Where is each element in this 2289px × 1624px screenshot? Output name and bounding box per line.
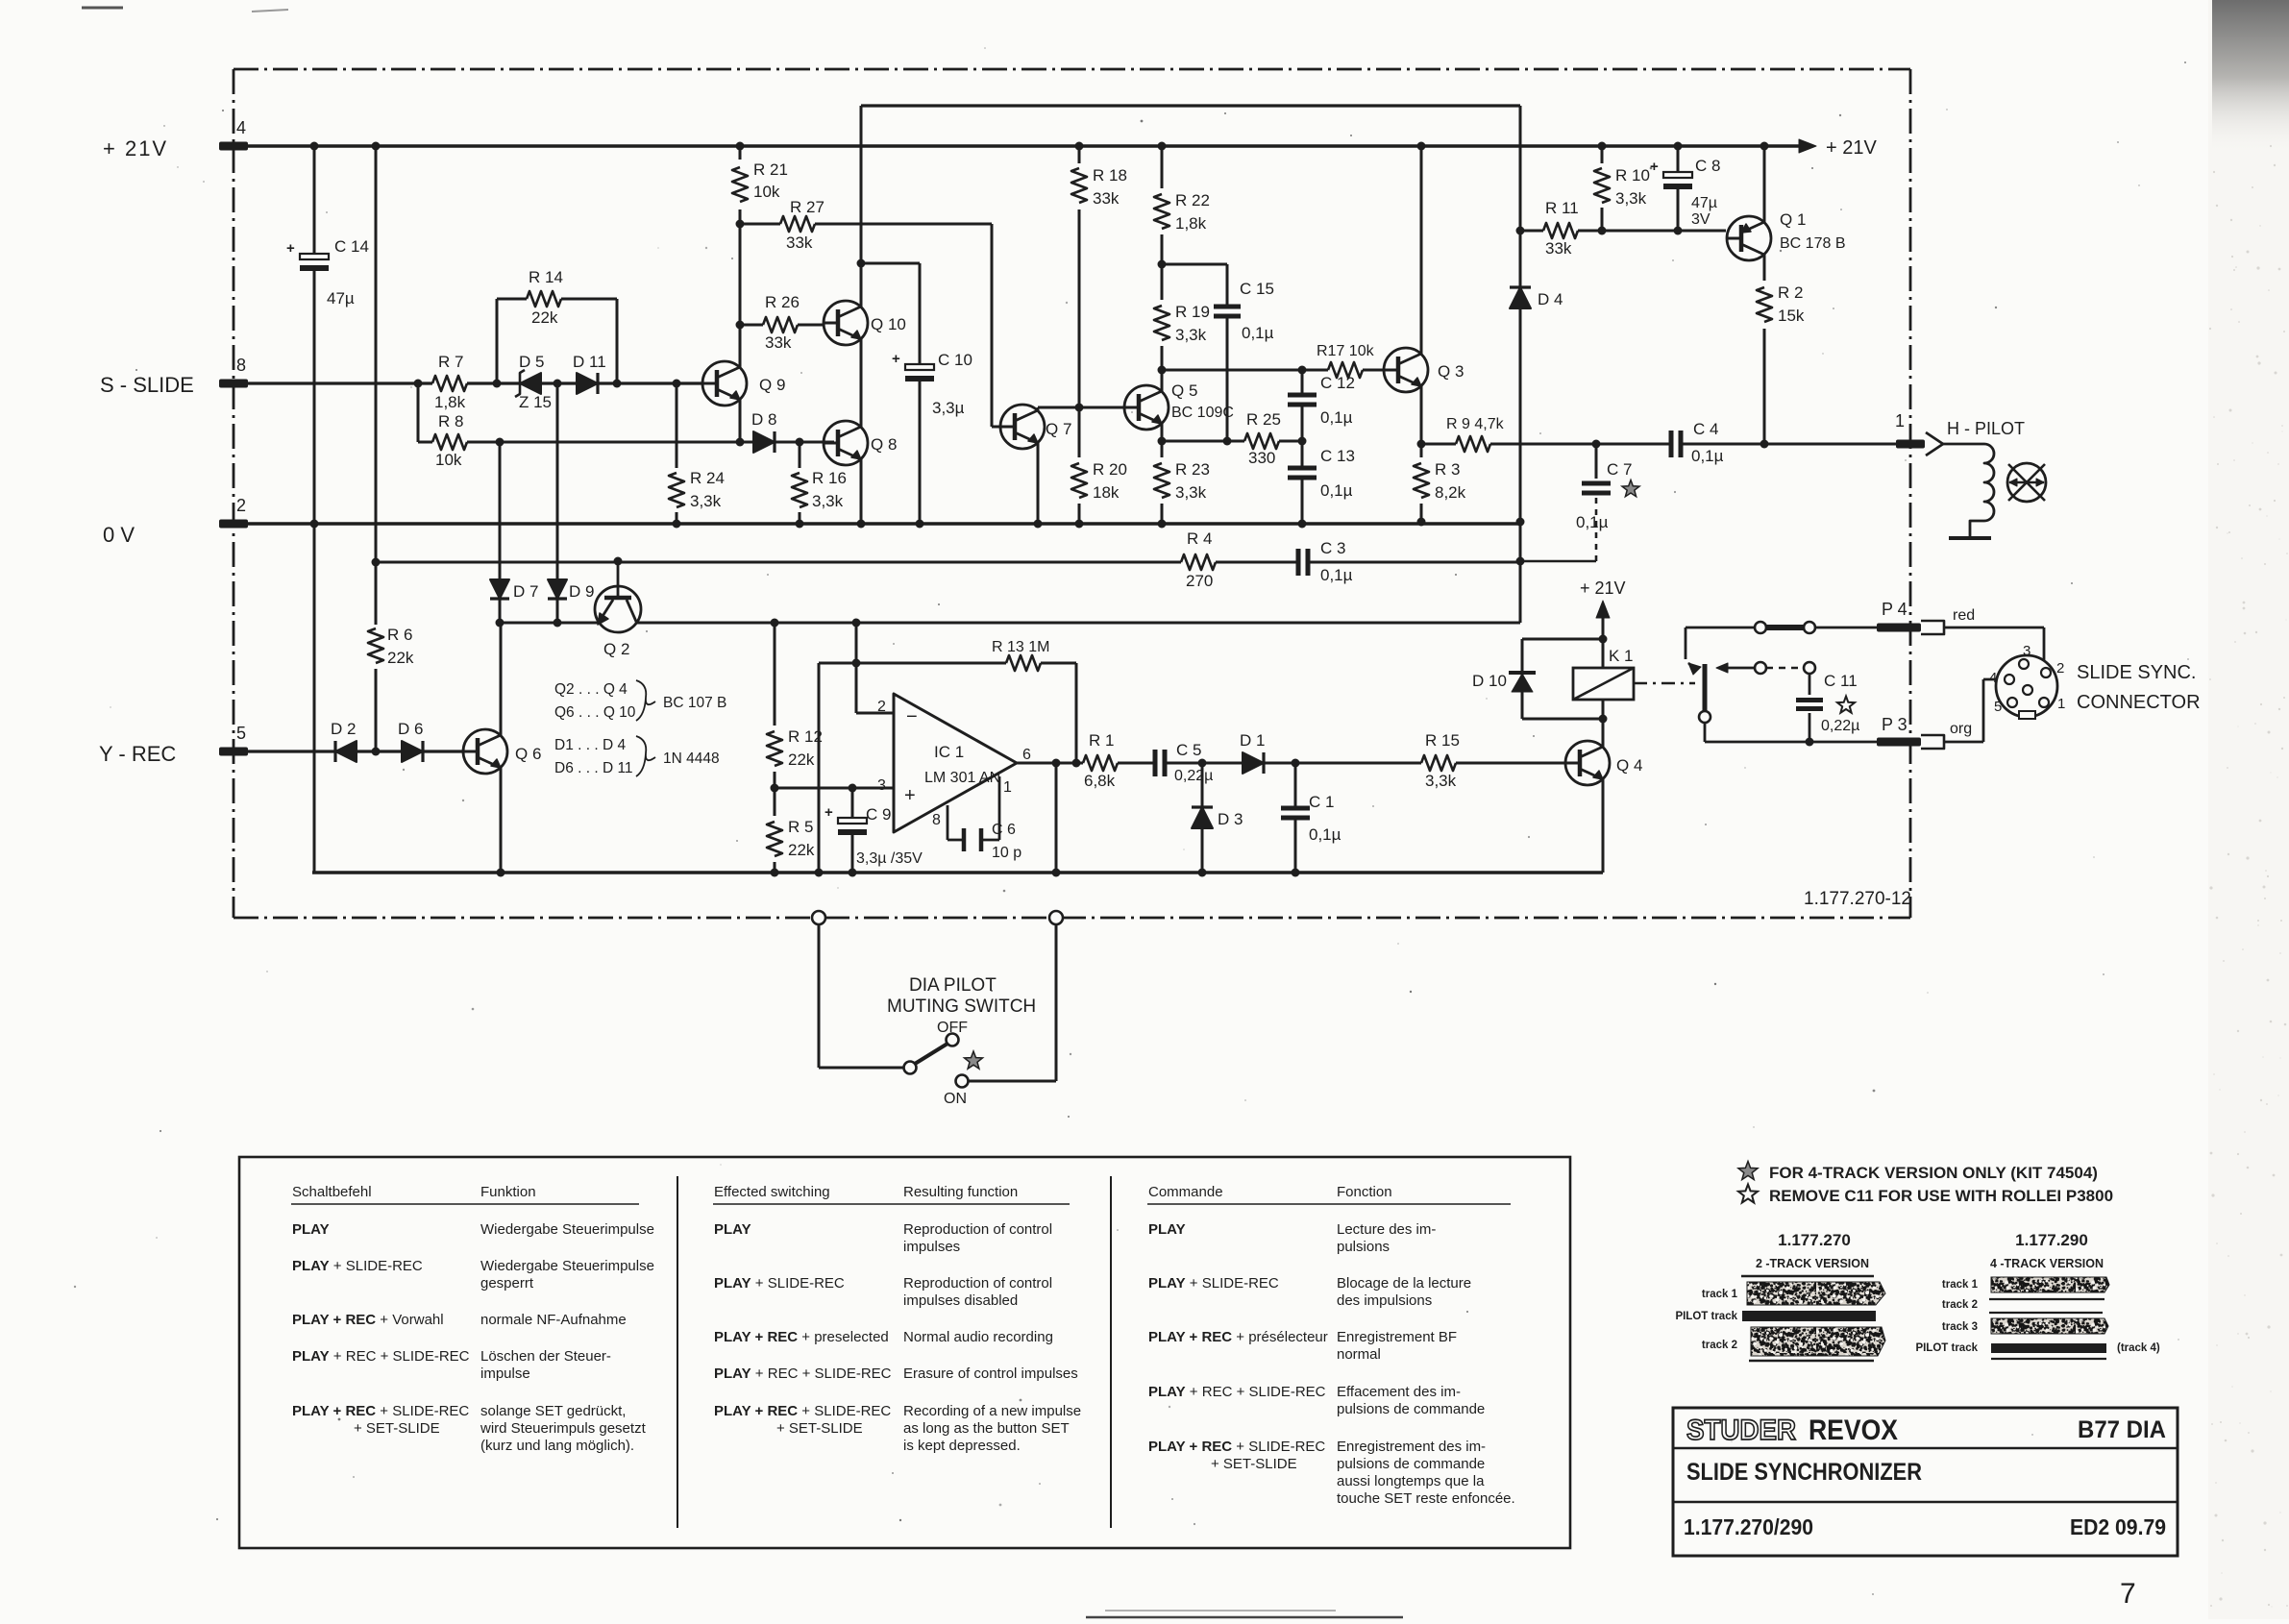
svg-text:+ SET-SLIDE: + SET-SLIDE <box>1211 1456 1297 1472</box>
svg-text:R 8: R 8 <box>438 412 463 431</box>
svg-text:R 3: R 3 <box>1435 460 1460 479</box>
svg-text:0,1µ: 0,1µ <box>1691 447 1724 465</box>
svg-text:wird Steuerimpuls gesetzt: wird Steuerimpuls gesetzt <box>480 1420 647 1437</box>
svg-text:red: red <box>1953 607 1975 624</box>
svg-text:Recording of a new impulse: Recording of a new impulse <box>903 1403 1081 1419</box>
svg-text:Enregistrement BF: Enregistrement BF <box>1337 1329 1457 1345</box>
svg-text:R 11: R 11 <box>1545 199 1579 217</box>
svg-text:0 V: 0 V <box>103 523 135 547</box>
svg-text:P 3: P 3 <box>1882 715 1907 734</box>
svg-text:C 10: C 10 <box>938 351 972 369</box>
svg-text:impulses disabled: impulses disabled <box>903 1292 1018 1309</box>
svg-text:3,3k: 3,3k <box>1175 326 1207 344</box>
svg-text:track 3: track 3 <box>1942 1321 1978 1333</box>
svg-text:MUTING SWITCH: MUTING SWITCH <box>887 997 1036 1017</box>
svg-text:2 -TRACK VERSION: 2 -TRACK VERSION <box>1756 1257 1869 1270</box>
svg-text:33k: 33k <box>786 234 813 252</box>
svg-text:10k: 10k <box>753 183 780 201</box>
svg-text:as long as the button SET: as long as the button SET <box>903 1420 1070 1437</box>
svg-text:D1 . . . D 4: D1 . . . D 4 <box>554 737 626 753</box>
svg-text:OFF: OFF <box>937 1020 968 1036</box>
svg-text:+: + <box>1650 159 1659 175</box>
svg-text:des impulsions: des impulsions <box>1337 1292 1432 1309</box>
svg-text:R 22: R 22 <box>1175 191 1210 209</box>
svg-text:Effected switching: Effected switching <box>714 1184 830 1200</box>
svg-text:C 8: C 8 <box>1695 157 1720 175</box>
svg-text:+ 21V: + 21V <box>103 136 168 160</box>
svg-text:C 7: C 7 <box>1607 460 1632 479</box>
svg-text:Q 3: Q 3 <box>1438 362 1464 381</box>
svg-text:0,1µ: 0,1µ <box>1320 481 1353 500</box>
svg-text:1,8k: 1,8k <box>1175 214 1207 233</box>
svg-text:R 5: R 5 <box>788 818 813 836</box>
svg-text:R 21: R 21 <box>753 160 788 179</box>
svg-text:15k: 15k <box>1778 307 1805 325</box>
svg-text:D 8: D 8 <box>751 410 776 429</box>
svg-text:PLAY: PLAY <box>292 1221 330 1238</box>
svg-text:D 11: D 11 <box>573 353 606 371</box>
svg-text:4 -TRACK VERSION: 4 -TRACK VERSION <box>1990 1257 2104 1270</box>
svg-text:3: 3 <box>877 777 886 794</box>
svg-text:PLAY + SLIDE-REC: PLAY + SLIDE-REC <box>714 1275 845 1292</box>
svg-text:impulses: impulses <box>903 1239 960 1255</box>
svg-text:Q 1: Q 1 <box>1780 210 1806 229</box>
svg-text:4: 4 <box>236 118 246 137</box>
svg-text:1,8k: 1,8k <box>434 393 466 411</box>
svg-text:C 14: C 14 <box>334 237 369 256</box>
svg-text:10k: 10k <box>435 451 462 469</box>
svg-text:PLAY + REC + SLIDE-REC: PLAY + REC + SLIDE-REC <box>1148 1384 1326 1400</box>
svg-text:Reproduction of control: Reproduction of control <box>903 1221 1052 1238</box>
svg-text:PLAY + REC + SLIDE-REC: PLAY + REC + SLIDE-REC <box>1148 1439 1325 1455</box>
svg-text:6: 6 <box>1022 747 1031 763</box>
svg-text:PLAY + REC + Vorwahl: PLAY + REC + Vorwahl <box>292 1312 444 1328</box>
svg-text:PLAY + REC + SLIDE-REC: PLAY + REC + SLIDE-REC <box>292 1348 470 1365</box>
svg-text:R 15: R 15 <box>1425 731 1460 750</box>
svg-text:SLIDE SYNC.: SLIDE SYNC. <box>2077 662 2196 683</box>
svg-text:PLAY + SLIDE-REC: PLAY + SLIDE-REC <box>1148 1275 1279 1292</box>
svg-text:2: 2 <box>877 699 886 715</box>
svg-text:R 27: R 27 <box>790 198 825 216</box>
svg-text:1.177.290: 1.177.290 <box>2015 1231 2088 1249</box>
svg-text:impulse: impulse <box>480 1366 530 1382</box>
svg-text:P 4: P 4 <box>1882 600 1907 619</box>
svg-text:Schaltbefehl: Schaltbefehl <box>292 1184 372 1200</box>
svg-text:1: 1 <box>1003 779 1012 796</box>
svg-text:PLAY + REC + preselected: PLAY + REC + preselected <box>714 1329 889 1345</box>
svg-text:R17 10k: R17 10k <box>1317 343 1375 359</box>
svg-text:+: + <box>892 351 900 367</box>
svg-text:Q 9: Q 9 <box>759 376 785 394</box>
svg-text:touche SET reste enfoncée.: touche SET reste enfoncée. <box>1337 1490 1515 1507</box>
svg-text:PLAY + REC + SLIDE-REC: PLAY + REC + SLIDE-REC <box>714 1366 892 1382</box>
svg-text:PLAY: PLAY <box>1148 1221 1186 1238</box>
svg-text:3,3k: 3,3k <box>1175 483 1207 502</box>
svg-text:D 3: D 3 <box>1218 810 1243 828</box>
svg-text:C 15: C 15 <box>1240 280 1274 298</box>
svg-text:C 13: C 13 <box>1320 447 1355 465</box>
svg-text:track 2: track 2 <box>1702 1340 1737 1351</box>
svg-text:270: 270 <box>1186 572 1213 590</box>
svg-text:3,3k: 3,3k <box>1615 189 1647 208</box>
svg-text:R 19: R 19 <box>1175 303 1210 321</box>
svg-text:LM 301 AN: LM 301 AN <box>924 770 1000 786</box>
svg-text:R 24: R 24 <box>690 469 725 487</box>
svg-text:R 4: R 4 <box>1187 529 1212 548</box>
svg-text:R 18: R 18 <box>1093 166 1127 185</box>
svg-text:D 6: D 6 <box>398 720 423 738</box>
svg-text:Resulting function: Resulting function <box>903 1184 1018 1200</box>
svg-text:C 6: C 6 <box>992 822 1016 838</box>
svg-text:C 9: C 9 <box>866 805 891 824</box>
svg-text:47µ: 47µ <box>327 289 355 308</box>
svg-text:PLAY + REC + SLIDE-REC: PLAY + REC + SLIDE-REC <box>292 1403 469 1419</box>
svg-text:Funktion: Funktion <box>480 1184 536 1200</box>
svg-text:BC 109C: BC 109C <box>1171 405 1234 421</box>
svg-text:R 2: R 2 <box>1778 283 1803 302</box>
svg-text:Q6 . . . Q 10: Q6 . . . Q 10 <box>554 704 636 721</box>
svg-text:Fonction: Fonction <box>1337 1184 1392 1200</box>
svg-text:0,1µ: 0,1µ <box>1309 825 1341 844</box>
svg-text:5: 5 <box>236 724 246 743</box>
svg-text:C 12: C 12 <box>1320 374 1355 392</box>
svg-text:Wiedergabe Steuerimpulse: Wiedergabe Steuerimpulse <box>480 1258 654 1274</box>
svg-text:ON: ON <box>944 1091 967 1107</box>
svg-text:STUDER: STUDER <box>1686 1415 1796 1446</box>
svg-text:Q 7: Q 7 <box>1046 420 1071 438</box>
svg-text:Q 6: Q 6 <box>515 745 541 763</box>
svg-text:2: 2 <box>2056 660 2064 677</box>
svg-text:R 16: R 16 <box>812 469 847 487</box>
svg-text:D 1: D 1 <box>1240 731 1265 750</box>
svg-text:0,1µ: 0,1µ <box>1320 566 1353 584</box>
svg-text:0,22µ: 0,22µ <box>1174 768 1213 784</box>
svg-text:22k: 22k <box>788 750 815 769</box>
svg-text:3,3k: 3,3k <box>690 492 722 510</box>
svg-text:R 25: R 25 <box>1246 410 1281 429</box>
svg-text:+ SET-SLIDE: + SET-SLIDE <box>776 1420 863 1437</box>
svg-text:R 20: R 20 <box>1093 460 1127 479</box>
svg-text:33k: 33k <box>1093 189 1120 208</box>
svg-text:Commande: Commande <box>1148 1184 1223 1200</box>
svg-text:0,1µ: 0,1µ <box>1320 408 1353 427</box>
svg-text:pulsions: pulsions <box>1337 1239 1390 1255</box>
svg-text:PILOT track: PILOT track <box>1675 1311 1737 1322</box>
svg-text:normal: normal <box>1337 1346 1381 1363</box>
svg-text:4: 4 <box>1989 670 1997 686</box>
svg-text:0,1µ: 0,1µ <box>1242 324 1274 342</box>
svg-text:(track 4): (track 4) <box>2117 1342 2160 1354</box>
svg-text:22k: 22k <box>387 649 414 667</box>
svg-text:C 11: C 11 <box>1824 672 1858 690</box>
svg-text:B77 DIA: B77 DIA <box>2078 1416 2166 1443</box>
svg-text:S - SLIDE: S - SLIDE <box>100 373 194 397</box>
svg-text:3,3µ: 3,3µ <box>932 399 965 417</box>
svg-text:SLIDE SYNCHRONIZER: SLIDE SYNCHRONIZER <box>1686 1459 1922 1486</box>
svg-text:1: 1 <box>2057 696 2065 712</box>
svg-text:3V: 3V <box>1691 211 1711 228</box>
svg-text:8,2k: 8,2k <box>1435 483 1466 502</box>
svg-text:pulsions de commande: pulsions de commande <box>1337 1456 1485 1472</box>
svg-text:Q 8: Q 8 <box>871 435 897 454</box>
svg-text:+: + <box>825 804 833 821</box>
svg-text:K 1: K 1 <box>1609 647 1634 665</box>
svg-text:8: 8 <box>236 356 246 375</box>
svg-text:+: + <box>904 785 916 806</box>
svg-text:Q 4: Q 4 <box>1616 756 1642 775</box>
svg-text:REVOX: REVOX <box>1809 1415 1898 1446</box>
svg-text:DIA PILOT: DIA PILOT <box>909 975 997 996</box>
svg-text:PLAY + REC + SLIDE-REC: PLAY + REC + SLIDE-REC <box>714 1403 891 1419</box>
svg-text:R 14: R 14 <box>529 268 563 286</box>
svg-text:Effacement des im-: Effacement des im- <box>1337 1384 1461 1400</box>
svg-text:R 10: R 10 <box>1615 166 1650 185</box>
svg-text:CONNECTOR: CONNECTOR <box>2077 692 2201 713</box>
svg-text:Blocage de la lecture: Blocage de la lecture <box>1337 1275 1471 1292</box>
svg-text:1: 1 <box>1895 411 1905 431</box>
svg-text:C 1: C 1 <box>1309 793 1334 811</box>
svg-text:normale NF-Aufnahme: normale NF-Aufnahme <box>480 1312 627 1328</box>
svg-text:D 9: D 9 <box>569 582 594 601</box>
svg-text:Q 2: Q 2 <box>603 640 629 658</box>
svg-text:D 10: D 10 <box>1472 672 1507 690</box>
svg-text:2: 2 <box>236 496 246 515</box>
svg-text:PILOT track: PILOT track <box>1915 1342 1978 1354</box>
svg-text:+ 21V: + 21V <box>1580 578 1626 598</box>
svg-text:R 9 4,7k: R 9 4,7k <box>1446 416 1505 432</box>
svg-text:track 2: track 2 <box>1942 1299 1978 1311</box>
svg-text:R 13 1M: R 13 1M <box>992 639 1049 655</box>
svg-text:(kurz und lang möglich).: (kurz und lang möglich). <box>480 1438 634 1454</box>
svg-text:+ 21V: + 21V <box>1826 137 1877 159</box>
svg-text:330: 330 <box>1248 449 1275 467</box>
svg-text:1N 4448: 1N 4448 <box>663 750 720 767</box>
svg-text:REMOVE C11 FOR USE WITH ROLLEI: REMOVE C11 FOR USE WITH ROLLEI P3800 <box>1769 1187 2113 1205</box>
svg-text:Q 5: Q 5 <box>1171 381 1197 400</box>
svg-text:org: org <box>1950 721 1972 737</box>
svg-text:3,3k: 3,3k <box>1425 772 1457 790</box>
svg-text:10 p: 10 p <box>992 845 1021 861</box>
svg-text:IC 1: IC 1 <box>934 743 964 761</box>
svg-text:22k: 22k <box>531 308 558 327</box>
svg-text:track 1: track 1 <box>1942 1279 1979 1291</box>
svg-text:3,3µ /35V: 3,3µ /35V <box>856 850 923 867</box>
svg-text:Lecture des im-: Lecture des im- <box>1337 1221 1436 1238</box>
svg-text:solange SET gedrückt,: solange SET gedrückt, <box>480 1403 626 1419</box>
svg-text:C 5: C 5 <box>1176 741 1201 759</box>
svg-text:1.177.270: 1.177.270 <box>1778 1231 1851 1249</box>
svg-text:R 23: R 23 <box>1175 460 1210 479</box>
svg-text:0,22µ: 0,22µ <box>1821 718 1859 734</box>
svg-text:R 7: R 7 <box>438 353 463 371</box>
svg-text:33k: 33k <box>1545 239 1572 258</box>
svg-text:R 1: R 1 <box>1089 731 1114 750</box>
svg-text:1.177.270/290: 1.177.270/290 <box>1684 1514 1813 1539</box>
svg-text:+ SET-SLIDE: + SET-SLIDE <box>354 1420 440 1437</box>
svg-text:Q 10: Q 10 <box>871 315 906 333</box>
svg-text:C 4: C 4 <box>1693 420 1718 438</box>
svg-text:D 7: D 7 <box>513 582 538 601</box>
svg-text:22k: 22k <box>788 841 815 859</box>
svg-text:−: − <box>906 706 918 727</box>
svg-text:ED2 09.79: ED2 09.79 <box>2070 1514 2166 1539</box>
svg-text:Enregistrement des im-: Enregistrement des im- <box>1337 1439 1486 1455</box>
svg-text:C 3: C 3 <box>1320 539 1345 557</box>
svg-text:6,8k: 6,8k <box>1084 772 1116 790</box>
svg-text:Y - REC: Y - REC <box>99 742 176 766</box>
svg-text:Normal audio recording: Normal audio recording <box>903 1329 1053 1345</box>
svg-text:R 6: R 6 <box>387 626 412 644</box>
svg-text:Löschen der Steuer-: Löschen der Steuer- <box>480 1348 611 1365</box>
svg-text:Q2 . . . Q 4: Q2 . . . Q 4 <box>554 681 628 698</box>
svg-text:D 4: D 4 <box>1538 290 1563 308</box>
svg-text:0,1µ: 0,1µ <box>1576 513 1609 531</box>
svg-text:18k: 18k <box>1093 483 1120 502</box>
svg-text:BC 178 B: BC 178 B <box>1780 235 1845 252</box>
svg-text:pulsions de commande: pulsions de commande <box>1337 1401 1485 1417</box>
svg-text:8: 8 <box>932 812 941 828</box>
svg-text:47µ: 47µ <box>1691 195 1717 211</box>
svg-text:R 26: R 26 <box>765 293 800 311</box>
svg-text:FOR 4-TRACK VERSION ONLY (KIT: FOR 4-TRACK VERSION ONLY (KIT 74504) <box>1769 1164 2098 1182</box>
svg-text:3,3k: 3,3k <box>812 492 844 510</box>
svg-text:+: + <box>286 240 295 257</box>
svg-text:3: 3 <box>2023 643 2031 659</box>
svg-text:Reproduction of control: Reproduction of control <box>903 1275 1052 1292</box>
svg-text:track 1: track 1 <box>1702 1289 1738 1300</box>
svg-text:PLAY: PLAY <box>714 1221 751 1238</box>
svg-text:1.177.270-12: 1.177.270-12 <box>1804 889 1911 909</box>
svg-text:Z 15: Z 15 <box>519 393 552 411</box>
svg-text:5: 5 <box>1994 699 2002 715</box>
svg-text:D6 . . . D 11: D6 . . . D 11 <box>554 760 633 776</box>
svg-text:BC 107 B: BC 107 B <box>663 695 726 711</box>
svg-text:7: 7 <box>2120 1578 2136 1610</box>
svg-text:is kept depressed.: is kept depressed. <box>903 1438 1021 1454</box>
svg-text:D 5: D 5 <box>519 353 544 371</box>
svg-text:H - PILOT: H - PILOT <box>1947 419 2025 438</box>
svg-text:D 2: D 2 <box>331 720 356 738</box>
svg-text:Erasure of control impulses: Erasure of control impulses <box>903 1366 1078 1382</box>
svg-text:PLAY + SLIDE-REC: PLAY + SLIDE-REC <box>292 1258 423 1274</box>
svg-text:aussi longtemps que la: aussi longtemps que la <box>1337 1473 1485 1489</box>
svg-text:Wiedergabe Steuerimpulse: Wiedergabe Steuerimpulse <box>480 1221 654 1238</box>
svg-text:gesperrt: gesperrt <box>480 1275 534 1292</box>
svg-text:PLAY + REC + présélecteur: PLAY + REC + présélecteur <box>1148 1329 1328 1345</box>
svg-text:33k: 33k <box>765 333 792 352</box>
